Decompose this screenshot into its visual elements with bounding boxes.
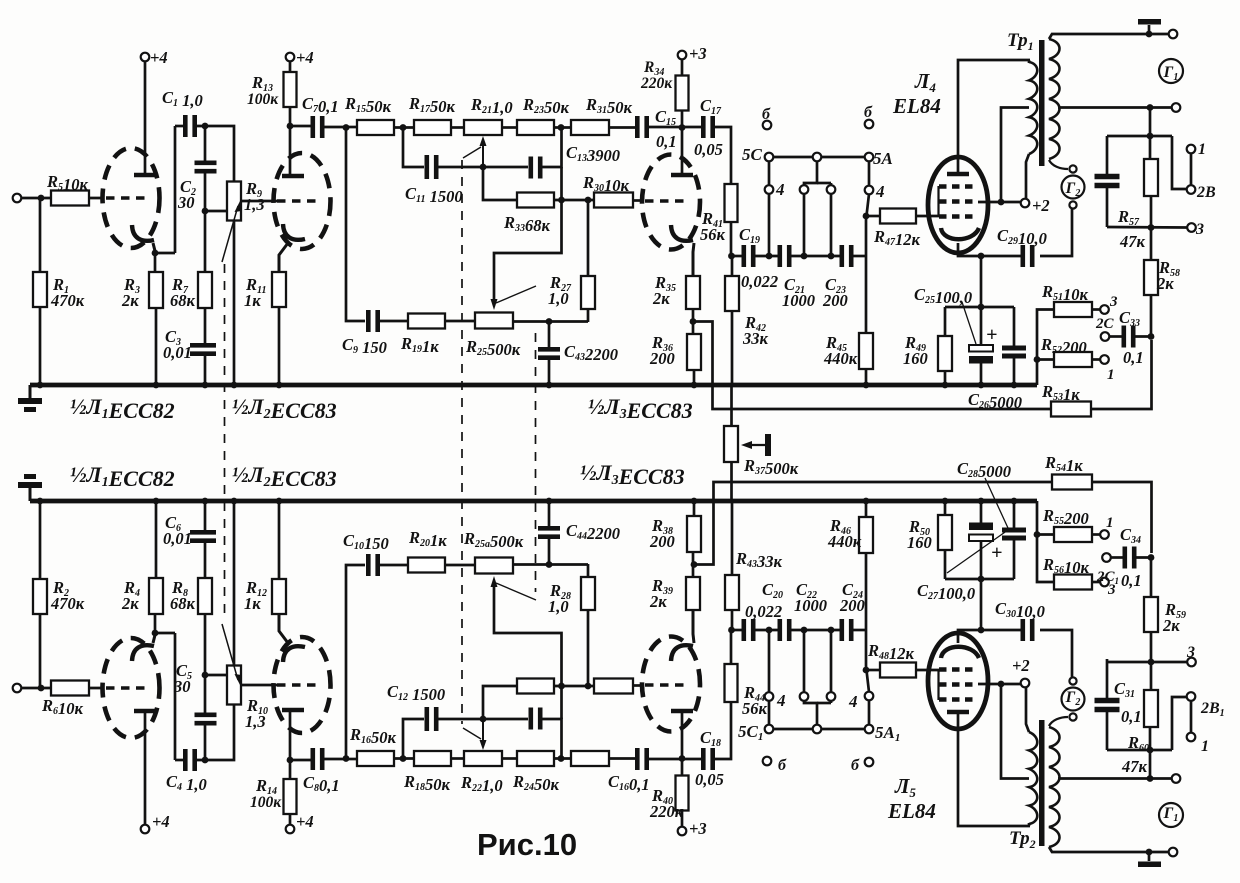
- wire input to grid (bottom): [21, 687, 104, 690]
- svg-text:2к: 2к: [121, 594, 139, 613]
- capacitor C29: [1020, 245, 1025, 267]
- wire C17 to R41: [713, 127, 731, 184]
- wire C33 left: [1109, 335, 1124, 338]
- wire R46 bottom: [865, 501, 868, 517]
- pentode V5 anode plate: [947, 710, 969, 715]
- chassis ground at speaker (bottom): [1148, 852, 1151, 861]
- capacitor C4: [183, 749, 188, 771]
- svg-text:200: 200: [649, 349, 675, 368]
- wire R27 column: [587, 200, 590, 276]
- wire R15-R17: [394, 126, 414, 129]
- svg-text:47к: 47к: [1121, 757, 1148, 776]
- wire C22-C24: [789, 629, 841, 632]
- svg-text:R4812к: R4812к: [867, 641, 915, 663]
- node tap/R60: [1147, 775, 1154, 782]
- terminal 4 (right bottom): [865, 692, 874, 701]
- svg-text:C160,1: C160,1: [608, 772, 650, 794]
- svg-text:2к: 2к: [121, 291, 139, 310]
- triode U2a envelope: [274, 153, 331, 249]
- input terminal (top channel): [13, 194, 22, 203]
- node R4/bus: [153, 498, 160, 505]
- wire V4 screen to +2: [978, 201, 1020, 204]
- svg-text:220к: 220к: [640, 75, 673, 92]
- triode U3b cathode: [671, 645, 693, 661]
- wire C2 bottom: [204, 171, 207, 211]
- wire R51/R52 left riser: [1037, 310, 1054, 386]
- wire Tr1 primary top lead: [1028, 60, 1031, 63]
- wire to R50 and C28: [945, 578, 1014, 581]
- resistor R59: [1144, 597, 1158, 632]
- wire R1 top: [39, 198, 42, 272]
- svg-text:3: 3: [1195, 221, 1204, 238]
- wire node down to C12: [403, 719, 424, 759]
- wire R51 right: [1092, 308, 1100, 311]
- triode U1a-b cathode: [132, 645, 154, 661]
- wire C6 bottom: [204, 501, 207, 532]
- wire +4 to R13: [289, 61, 292, 72]
- node R3/bus: [153, 382, 160, 389]
- wire feedback to R25 wiper: [494, 200, 562, 300]
- capacitor C20: [741, 619, 746, 641]
- resistor R50: [938, 515, 952, 550]
- wire C20-C22: [753, 629, 779, 632]
- wire C3 bottom: [204, 354, 207, 385]
- terminal 3 (tap): [1100, 305, 1109, 314]
- wire 1-2B1: [1190, 701, 1193, 733]
- capacitor C26: [1002, 346, 1026, 351]
- wire anode node to C7: [290, 125, 313, 128]
- terminal 1 (tap bottom): [1100, 530, 1109, 539]
- svg-text:C80,1: C80,1: [303, 773, 340, 795]
- node C44/bus: [546, 498, 553, 505]
- capacitor C17: [701, 116, 706, 138]
- resistor R6: [51, 681, 89, 696]
- resistor R41: [725, 184, 738, 222]
- terminal b (left bottom): [763, 757, 772, 766]
- wire C19-C21: [753, 255, 779, 258]
- svg-text:56к: 56к: [700, 225, 726, 244]
- terminal +4 (left): [141, 53, 150, 62]
- wire R42 bottom: [731, 311, 734, 385]
- wire R48 left: [866, 669, 880, 672]
- node C12/C14/R26: [480, 716, 487, 723]
- wire mid switch down: [804, 161, 817, 185]
- svg-text:+: +: [986, 324, 997, 346]
- resistor R26: [517, 679, 554, 694]
- speaker symbol G1 (bottom): [1159, 803, 1183, 827]
- svg-text:33к: 33к: [742, 329, 769, 348]
- pentode V5 grid lead bar: [937, 669, 939, 700]
- wire R54 to C34 node: [1092, 482, 1152, 553]
- resistor R13: [284, 72, 297, 107]
- svg-text:R3368к: R3368к: [503, 213, 551, 235]
- svg-text:R52200: R52200: [1040, 335, 1087, 357]
- wire anode U3b: [681, 713, 684, 759]
- resistor R33: [517, 193, 554, 208]
- wire C26 bottom: [1013, 356, 1016, 385]
- triode U1a cathode: [132, 225, 154, 241]
- resistor R4: [149, 578, 163, 614]
- wire mid-left to cap row: [803, 194, 806, 256]
- potentiometer R25a: [475, 558, 513, 574]
- pentode V4 grid 1: [939, 184, 978, 188]
- wire screen tap riser (bottom): [1001, 684, 1029, 779]
- wire V5 screen to +2: [978, 683, 1020, 686]
- svg-text:470к: 470к: [50, 594, 85, 613]
- wire 4 to cap row (bottom): [768, 630, 771, 692]
- wire node to R9 body: [205, 210, 227, 213]
- terminal 5A: [865, 153, 874, 162]
- capacitor C34: [1123, 547, 1128, 569]
- wire 5C1 down (bottom): [768, 701, 771, 725]
- wire C28 bottom: [1013, 501, 1016, 530]
- wire R17-R21: [451, 126, 464, 129]
- wire R10 bottom: [233, 501, 236, 666]
- triode U1a-b anode plate: [134, 709, 156, 714]
- wire V4 anode up: [958, 60, 1030, 172]
- wire C25 top: [980, 307, 983, 345]
- resistor R17: [414, 120, 451, 135]
- node C6/bus: [202, 498, 209, 505]
- svg-text:160: 160: [903, 349, 928, 368]
- wire C9-R19: [378, 320, 408, 323]
- resistor R27: [581, 276, 595, 309]
- svg-text:б: б: [762, 106, 771, 123]
- svg-text:C265000: C265000: [968, 390, 1022, 412]
- wire node to C13: [483, 166, 528, 169]
- node R11/bus: [276, 382, 283, 389]
- node R60 top: [1147, 747, 1154, 754]
- wire C13 up to chain: [541, 128, 562, 167]
- wire feedback line (bottom channel): [694, 482, 1052, 565]
- node R9/bus: [231, 382, 238, 389]
- leader line C28 label: [985, 478, 1008, 528]
- svg-text:R3010к: R3010к: [582, 173, 630, 195]
- terminal +4 (right): [286, 53, 295, 62]
- transformer Tr1 secondary: [1049, 39, 1060, 159]
- wire to 1/2B terminals: [1172, 136, 1186, 189]
- svg-text:0,022: 0,022: [741, 272, 778, 291]
- terminal +2 (bottom): [1021, 679, 1030, 688]
- svg-text:440к: 440к: [827, 532, 862, 551]
- terminal +3: [678, 51, 687, 60]
- node C11/C13/R33: [480, 164, 487, 171]
- node R33/R30: [558, 197, 565, 204]
- node R26/R29: [558, 683, 565, 690]
- potentiometer R21: [464, 120, 502, 135]
- node C28/bus: [1011, 498, 1018, 505]
- svg-text:100к: 100к: [247, 91, 279, 108]
- node R52 left: [1034, 356, 1041, 363]
- wire C18 to R44: [713, 702, 731, 759]
- node R57/line3: [1148, 224, 1155, 231]
- wire 1-2B: [1190, 153, 1193, 185]
- wire R57 top: [1149, 136, 1152, 159]
- svg-text:0,1: 0,1: [656, 132, 677, 151]
- terminal 4 (right): [865, 186, 874, 195]
- wire 5A1 down (bottom): [868, 700, 871, 725]
- wire C24 to R46: [851, 629, 866, 632]
- svg-text:1000: 1000: [782, 291, 815, 310]
- wire R49 bottom: [944, 371, 947, 385]
- capacitor C18: [701, 748, 706, 770]
- svg-text:1,3: 1,3: [245, 712, 266, 731]
- svg-text:5А: 5А: [873, 149, 893, 168]
- wire C2 top: [204, 126, 207, 163]
- node R25a/C44: [546, 561, 553, 568]
- wire (bottom): [803, 630, 806, 692]
- wire C32 top: [1106, 136, 1109, 176]
- input terminal (bottom channel): [13, 684, 22, 693]
- wire R35-R36: [692, 309, 695, 334]
- node C4/C5: [202, 757, 209, 764]
- terminal 3 (tap bottom): [1100, 578, 1109, 587]
- node C27/bus: [978, 498, 985, 505]
- triode U1a-b envelope: [103, 638, 160, 738]
- wire 4 to cap row: [768, 194, 771, 256]
- node input/R2: [38, 685, 45, 692]
- svg-text:1: 1: [1107, 367, 1115, 383]
- svg-text:1: 1: [1198, 141, 1206, 158]
- terminal G2 in: [1069, 165, 1076, 172]
- wire V5 cathode lead: [958, 630, 981, 643]
- triode U2a anode plate: [282, 174, 304, 179]
- resistor R58: [1144, 260, 1158, 295]
- wire node down to R33: [483, 167, 517, 200]
- svg-text:R5610к: R5610к: [1042, 555, 1090, 577]
- wire node down to C11: [403, 127, 424, 167]
- wire cathode node down: [980, 256, 983, 307]
- wire C44 bottom: [548, 501, 551, 528]
- resistor R51: [1054, 302, 1092, 317]
- svg-text:C12 1500: C12 1500: [387, 682, 445, 704]
- svg-text:½Л1ЕСС82: ½Л1ЕСС82: [70, 462, 175, 491]
- node R57 top: [1147, 133, 1154, 140]
- node C15/R34: [679, 124, 686, 131]
- svg-text:4: 4: [875, 182, 885, 201]
- node C21/C23 left: [801, 253, 808, 260]
- node V5 cathode: [978, 627, 985, 634]
- resistor R57: [1144, 159, 1158, 196]
- wire R2 bottom: [39, 501, 42, 579]
- resistor R36: [687, 334, 701, 370]
- wire R36 bottom: [693, 370, 696, 385]
- wire R44 bottom: [730, 630, 733, 664]
- wire C8 to node: [322, 758, 346, 761]
- svg-text:R1550к: R1550к: [344, 94, 392, 116]
- node R59/C34: [1148, 554, 1155, 561]
- transformer Tr2 primary: [1029, 732, 1037, 824]
- wire 5A down: [868, 161, 871, 186]
- speaker symbol G1: [1159, 59, 1183, 83]
- wire R23 to node: [554, 126, 571, 129]
- svg-text:200: 200: [649, 532, 675, 551]
- svg-text:47к: 47к: [1119, 232, 1146, 251]
- capacitor C8: [310, 748, 315, 770]
- svg-text:+4: +4: [152, 812, 170, 831]
- wire R46 top: [865, 553, 868, 630]
- headphone jack G2 (bottom): [1062, 688, 1085, 711]
- wire anode lead U2a: [289, 126, 292, 174]
- svg-text:R1750к: R1750к: [408, 94, 456, 116]
- resistor R2: [33, 579, 47, 614]
- node R48/switch column: [863, 667, 870, 674]
- wire R43 top: [731, 610, 734, 630]
- svg-text:3: 3: [1186, 644, 1195, 661]
- terminal output tap (bottom): [1172, 774, 1181, 783]
- R22 wiper arrow: [482, 718, 484, 744]
- svg-text:0,1: 0,1: [1121, 707, 1142, 726]
- wire R25a to R28: [513, 563, 588, 566]
- capacitor C44: [538, 534, 560, 539]
- svg-text:+2: +2: [1032, 196, 1050, 215]
- terminal 4 (mid-right): [827, 185, 836, 194]
- wire R47 to grid: [916, 215, 941, 218]
- wire Tr1 secondary top: [1049, 34, 1168, 39]
- svg-text:1к: 1к: [244, 291, 261, 310]
- node R50/bus: [942, 498, 949, 505]
- svg-text:68к: 68к: [170, 291, 196, 310]
- resistor R14: [284, 779, 297, 814]
- wire C32 branch: [1107, 135, 1172, 138]
- wire R42 top: [731, 256, 734, 276]
- svg-text:C3010,0: C3010,0: [995, 599, 1045, 621]
- wire R34 top: [681, 59, 684, 76]
- node screen tap: [998, 199, 1005, 206]
- wire (bottom) 2: [830, 630, 833, 692]
- wire to 1/2B1 terminals: [1172, 697, 1186, 750]
- node R1/bus: [37, 382, 44, 389]
- svg-text:+: +: [991, 542, 1002, 564]
- wire anode lead U2b: [289, 712, 292, 760]
- wire R25 to R27: [513, 320, 588, 323]
- wire R10 wiper to grid (bottom): [241, 684, 277, 687]
- wire cathode node to C29: [981, 255, 1022, 258]
- wire R48 to grid: [916, 669, 941, 672]
- svg-text:½Л3ЕСС83: ½Л3ЕСС83: [588, 394, 693, 423]
- resistor R38: [687, 516, 701, 552]
- node screen tap (bottom): [998, 681, 1005, 688]
- node feedback top (R35/R36): [690, 318, 697, 325]
- svg-text:б: б: [778, 757, 787, 774]
- resistor R18: [414, 751, 451, 766]
- resistor R45: [859, 333, 873, 369]
- resistor R60: [1144, 690, 1158, 727]
- node R59/line3: [1148, 659, 1155, 666]
- svg-text:5С: 5С: [742, 145, 763, 164]
- chassis ground at speaker: [1148, 25, 1151, 34]
- pentode V5 grid 2: [939, 682, 978, 686]
- svg-text:+4: +4: [150, 48, 168, 67]
- terminal 3 (right edge): [1187, 223, 1196, 232]
- wire C10-R20: [378, 564, 408, 567]
- node C20/C22: [766, 627, 773, 634]
- wire R43 bottom: [731, 501, 734, 575]
- node speaker ground (bottom): [1146, 849, 1153, 856]
- svg-text:C10150: C10150: [343, 531, 389, 553]
- svg-text:R610к: R610к: [41, 696, 84, 718]
- svg-text:1000: 1000: [794, 596, 827, 615]
- resistor R5: [51, 191, 89, 206]
- terminal b (right): [865, 120, 874, 129]
- terminal 5A1: [865, 725, 874, 734]
- resistor R55: [1054, 527, 1092, 542]
- svg-text:½Л2ЕСС83: ½Л2ЕСС83: [232, 462, 337, 491]
- node R15/C11: [400, 124, 407, 131]
- node anode U2b: [287, 757, 294, 764]
- wire Tr1 primary bottom to +2: [1026, 154, 1029, 199]
- resistor R7: [198, 272, 212, 308]
- wire feedback to R25a wiper: [494, 586, 562, 686]
- svg-text:R2450к: R2450к: [512, 772, 560, 794]
- leader line C25 label: [962, 302, 976, 344]
- pentode V5 envelope: [928, 633, 988, 729]
- node cathode/R50/C28: [978, 576, 985, 583]
- terminal 1 (tap): [1100, 355, 1109, 364]
- capacitor C7: [310, 116, 315, 138]
- node cathode U1a-b: [152, 630, 159, 637]
- terminal b (right bottom): [865, 758, 874, 767]
- node R23/R31/C13: [558, 124, 565, 131]
- resistor R24: [517, 751, 554, 766]
- svg-text:1,3: 1,3: [244, 195, 265, 214]
- triode U3b grid: [645, 683, 690, 687]
- wire R50 top: [944, 550, 947, 579]
- wire R53 to C33 node: [1091, 340, 1152, 409]
- wire to R49 and C26: [945, 306, 1014, 309]
- svg-text:C133900: C133900: [566, 143, 620, 165]
- svg-text:4: 4: [776, 691, 786, 710]
- capacitor C33: [1122, 326, 1127, 348]
- wire R47 left: [866, 215, 880, 218]
- wire cathode node to C30: [981, 629, 1022, 632]
- node cathode/R49/C26: [978, 304, 985, 311]
- ganged link R9-R10: [224, 264, 226, 620]
- ground bus (top channel): [30, 383, 1037, 388]
- transformer Tr2 core: [1039, 720, 1045, 846]
- node C21/C23 right: [828, 253, 835, 260]
- node R38/bus: [691, 498, 698, 505]
- resistor R56: [1054, 575, 1092, 590]
- wire R57 bottom: [1150, 196, 1153, 227]
- resistor R20: [408, 558, 445, 573]
- terminal b (left): [763, 121, 772, 130]
- wire C1 left: [175, 125, 185, 128]
- resistor R23: [517, 120, 554, 135]
- wire C31 top: [1106, 710, 1109, 750]
- terminal 5C1: [765, 725, 774, 734]
- wire +4 to R14: [289, 814, 292, 825]
- node R47/switch column: [863, 213, 870, 220]
- pentode V4 envelope: [928, 157, 988, 253]
- resistor R54: [1052, 475, 1092, 490]
- capacitor C14: [528, 708, 533, 730]
- svg-text:2к: 2к: [649, 592, 667, 611]
- node R10/bus: [231, 498, 238, 505]
- svg-text:1: 1: [1201, 738, 1209, 755]
- transformer Tr1 core: [1039, 40, 1045, 166]
- svg-text:440к: 440к: [823, 349, 858, 368]
- wire mid-right to cap row: [830, 194, 833, 256]
- pentode V4 anode plate: [947, 172, 969, 177]
- leader line C27 label: [947, 530, 1008, 573]
- wire R60 top: [1149, 727, 1152, 750]
- svg-text:R25500к: R25500к: [465, 337, 521, 359]
- wire V4 cathode lead: [958, 243, 981, 256]
- wire R9 wiper to grid U2: [241, 200, 277, 203]
- wire R60 bottom: [1150, 659, 1153, 690]
- R37 wiper arrow: [746, 444, 766, 446]
